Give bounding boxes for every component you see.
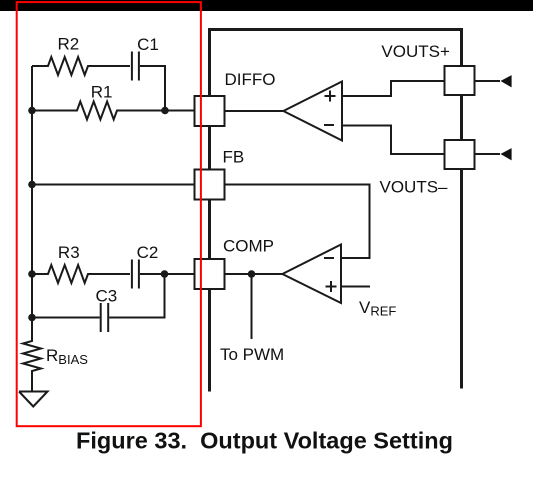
svg-text:VOUTS+: VOUTS+ — [381, 42, 450, 61]
svg-text:VOUTS–: VOUTS– — [380, 178, 449, 197]
svg-text:VREF: VREF — [359, 298, 396, 319]
svg-text:C2: C2 — [137, 243, 159, 262]
svg-text:R3: R3 — [58, 243, 80, 262]
svg-text:FB: FB — [223, 148, 245, 167]
svg-text:R2: R2 — [58, 35, 80, 54]
svg-text:To PWM: To PWM — [220, 345, 284, 364]
svg-text:RBIAS: RBIAS — [46, 346, 88, 367]
svg-text:Figure 33. Output Voltage Set: Figure 33. Output Voltage Setting — [76, 428, 453, 454]
svg-text:COMP: COMP — [223, 237, 274, 256]
svg-text:C1: C1 — [137, 35, 159, 54]
svg-text:C3: C3 — [96, 286, 118, 305]
svg-text:R1: R1 — [91, 83, 113, 102]
svg-text:DIFFO: DIFFO — [225, 70, 276, 89]
